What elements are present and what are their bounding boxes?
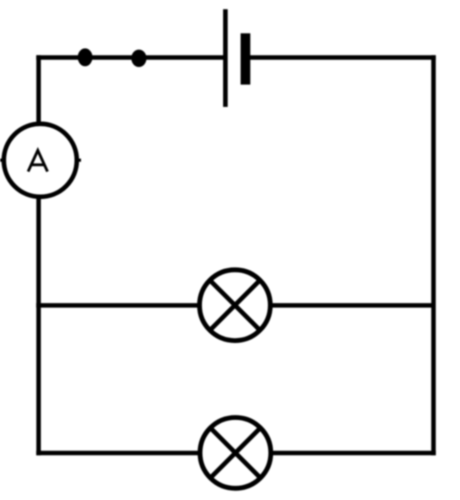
junction dot node 2 xyxy=(131,50,146,67)
lamp L1 cross stroke 1 xyxy=(208,279,261,332)
junction dot node 1 xyxy=(78,48,93,66)
battery cell negative plate (thick) xyxy=(241,33,251,84)
lamp L2 cross stroke 2 xyxy=(209,426,262,479)
lamp L1 cross stroke 2 xyxy=(208,279,261,332)
battery cell positive plate (long) xyxy=(223,9,228,107)
ammeter A side connection stubs xyxy=(0,159,81,162)
lamp L2 cross stroke 1 xyxy=(209,426,262,479)
lamp L2 circle xyxy=(200,418,271,489)
wire left vertical segment xyxy=(36,55,41,455)
ammeter A label glyph strokes xyxy=(28,150,47,171)
wire bottom horizontal segment (parallel branch 2) xyxy=(36,451,435,456)
wire top-right horizontal segment xyxy=(245,55,435,60)
wire middle horizontal segment (parallel branch 1) xyxy=(36,303,433,308)
ammeter A label crossbar xyxy=(31,163,44,166)
lamp L1 circle xyxy=(200,270,271,341)
wire top-left horizontal segment xyxy=(36,55,225,60)
ammeter A circle xyxy=(4,124,77,197)
wire right vertical segment xyxy=(431,55,436,455)
